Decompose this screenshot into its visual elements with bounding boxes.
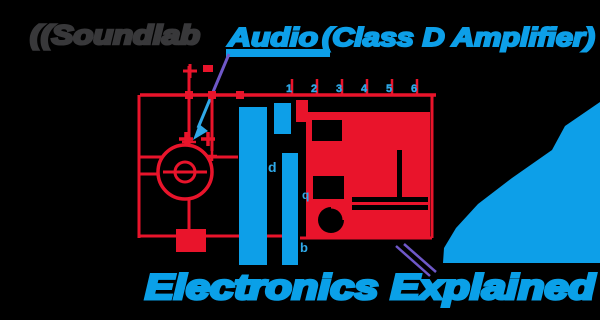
blue bar 2 — [282, 153, 298, 265]
bottom wire right — [300, 237, 432, 240]
junction blob A — [185, 91, 193, 99]
blue bar 1 — [239, 107, 267, 265]
pin stub 3 — [341, 79, 344, 95]
callout arrowhead — [193, 124, 208, 140]
IC body U1 — [306, 112, 430, 238]
svg-text:d: d — [268, 159, 277, 175]
speaker axis — [163, 171, 207, 174]
junction blob B — [208, 91, 216, 99]
IC slit row 2 — [352, 205, 428, 210]
blue tap square — [274, 103, 291, 134]
svg-text:Audio: Audio — [227, 22, 318, 52]
IC cutout label 2 — [313, 176, 344, 199]
speaker plus terminal — [179, 132, 193, 146]
svg-text:2: 2 — [311, 83, 317, 95]
svg-text:3: 3 — [336, 83, 342, 95]
wire top stub — [188, 66, 191, 95]
wire speaker feed — [188, 95, 191, 147]
pin stub 2 — [316, 79, 319, 95]
junction blob C — [236, 91, 244, 99]
wire mid — [139, 156, 238, 159]
terminal tick — [182, 141, 196, 144]
wire bottom — [139, 235, 296, 238]
IC circle arc — [331, 207, 344, 220]
terminal riser — [211, 95, 214, 151]
svg-text:q: q — [302, 188, 309, 202]
pin stub 6 — [416, 79, 419, 95]
pointer strand 1 — [396, 246, 430, 276]
speaker minus terminal — [201, 132, 215, 146]
component block below speaker — [176, 229, 206, 252]
speaker body — [158, 145, 212, 199]
svg-text:5: 5 — [386, 83, 392, 95]
pin stub 4 — [366, 79, 369, 95]
right rail — [431, 95, 434, 238]
node mark top right — [203, 65, 213, 72]
IC cutout label 1 — [312, 120, 342, 141]
pointer strand 2 — [404, 244, 436, 272]
svg-text:6: 6 — [411, 83, 417, 95]
IC circle cutout — [318, 207, 344, 233]
svg-text:b: b — [300, 240, 308, 255]
wire speaker minus — [139, 173, 160, 176]
svg-text:1: 1 — [286, 83, 292, 95]
svg-text:(Class D Amplifier): (Class D Amplifier) — [322, 22, 595, 52]
callout arrow lower (blue) — [198, 92, 213, 128]
speaker inner ring — [175, 162, 195, 182]
node cross top — [183, 64, 197, 78]
pin stub 1 — [291, 79, 294, 95]
left rail — [138, 95, 141, 238]
resistor bar — [296, 100, 308, 122]
polarity cross — [207, 151, 217, 161]
giant arrow — [443, 102, 600, 263]
pin stub 5 — [391, 79, 394, 95]
IC slit vertical — [397, 150, 402, 197]
IC slit row 1 — [352, 197, 428, 202]
callout arrow upper (purple) — [213, 54, 229, 92]
wire top horizontal — [140, 93, 436, 97]
svg-text:((Soundlab: ((Soundlab — [30, 20, 200, 50]
headline underline — [226, 49, 330, 57]
svg-text:4: 4 — [361, 83, 368, 95]
speaker lead — [188, 199, 191, 230]
svg-text:Electronics Explained: Electronics Explained — [145, 268, 596, 307]
